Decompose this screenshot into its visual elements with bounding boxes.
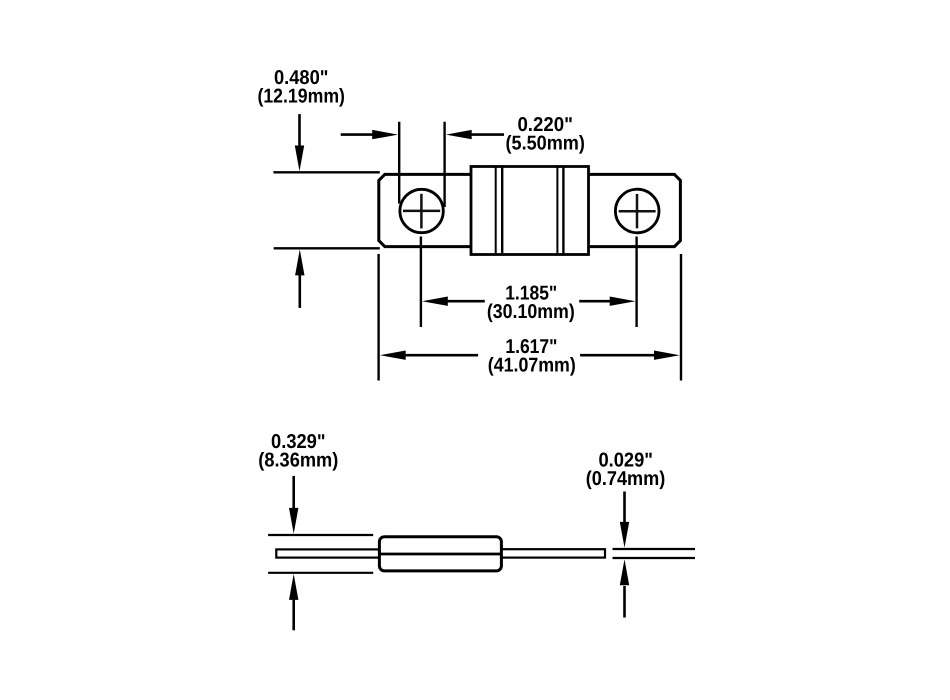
dim 1.617 dimension line with arrows [380, 351, 680, 360]
side view: bottom extension line [268, 572, 373, 574]
svg-text:(0.74mm): (0.74mm) [586, 468, 666, 490]
left mounting hole circle [400, 189, 443, 232]
body cap line left outer [495, 167, 497, 255]
fuse top view: center body block [471, 167, 589, 255]
dim 0.029 right extension line bottom [613, 557, 696, 559]
left hole cross [403, 194, 440, 229]
dim 1.185 dimension line with arrows [422, 297, 636, 306]
dim 0.220 left extension line [398, 122, 400, 204]
body cap line right outer [562, 167, 564, 255]
dim 0.480 up arrow [295, 249, 304, 308]
fuse top view: terminal base plate outline [379, 174, 681, 246]
svg-text:(12.19mm): (12.19mm) [257, 86, 345, 108]
dim 0.220 left arrow pointing right [341, 130, 398, 139]
right mounting hole circle [615, 189, 659, 233]
side view: right lead strip [501, 549, 605, 557]
dim 0.480 bottom extension line [274, 247, 380, 249]
dim 0.480 down arrow [295, 114, 304, 171]
svg-text:(41.07mm): (41.07mm) [488, 354, 576, 376]
side view: fuse body [379, 537, 501, 571]
side view: body middle line [380, 553, 501, 556]
dim 0.220 right arrow pointing left [446, 130, 504, 139]
side view: top extension line [268, 534, 373, 536]
dim 0.480 top extension line [273, 171, 379, 173]
dim 1.617 left extension line [377, 254, 379, 381]
dim 0.329 up arrow [289, 574, 298, 630]
dim 1.185 left center line [420, 237, 422, 328]
svg-text:(8.36mm): (8.36mm) [258, 450, 338, 472]
dim 0.029 down arrow [620, 492, 629, 548]
dim 0.329 down arrow [289, 476, 298, 534]
svg-text:(5.50mm): (5.50mm) [506, 132, 585, 154]
svg-text:(30.10mm): (30.10mm) [487, 301, 575, 323]
dim 1.617 right extension line [680, 254, 682, 381]
body cap line left inner [501, 167, 503, 255]
dim 0.029 up arrow [620, 559, 629, 617]
dim 0.220 right extension line [443, 122, 445, 207]
dim 1.185 right center line [635, 237, 637, 328]
body cap line right inner [556, 167, 558, 255]
right hole cross [619, 194, 656, 228]
side view: left lead strip [276, 549, 379, 557]
dim 0.029 right extension line top [613, 548, 696, 550]
